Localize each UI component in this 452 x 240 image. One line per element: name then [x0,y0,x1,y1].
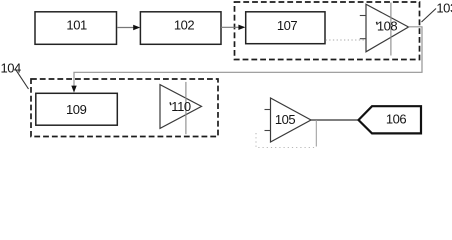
amp 105 input tick upper [265,109,271,111]
block 109 [36,93,118,125]
amplifier 108 [366,4,409,52]
arrowhead into 107 [238,25,245,30]
wire 102 to 107 [221,26,239,28]
svg-text:102: 102 [174,18,195,33]
svg-text:101: 101 [66,17,87,32]
svg-text:106: 106 [386,112,407,127]
svg-text:103: 103 [436,1,452,16]
amp 105 input tick lower [265,130,271,132]
svg-text:108: 108 [377,18,398,33]
dashed module box 103 [235,2,420,60]
block 107 [246,12,325,44]
tick mark of label 108 [376,22,379,25]
svg-text:109: 109 [66,102,87,117]
amp 108 center rail [390,3,392,56]
tick mark of label 110 [169,102,172,105]
dotted enclosure around 105 [256,133,317,148]
wire 101 to 102 [117,27,134,29]
amp 108 input tick upper [360,15,366,17]
dashed module box 104 [31,79,218,137]
stub wire down from 105 output [315,120,317,147]
wire 105 to 106 [311,119,359,121]
amplifier 110 [160,85,202,129]
block 101 [35,12,117,45]
amp 108 input tick lower [360,38,366,40]
block 102 [140,12,221,45]
arrowhead into 109 [71,86,76,93]
leader line to 104 [16,69,29,89]
wire 108 output down to 109 [74,27,422,89]
svg-text:105: 105 [275,112,296,127]
svg-text:107: 107 [277,18,298,33]
tag block 106 [359,106,422,133]
leader line to 103 [422,9,437,23]
amp 110 center rail [185,82,187,134]
arrowhead into 102 [133,25,140,30]
dotted link 107 to 108 [326,39,367,41]
svg-text:110: 110 [171,99,191,114]
amplifier 105 [271,98,312,142]
